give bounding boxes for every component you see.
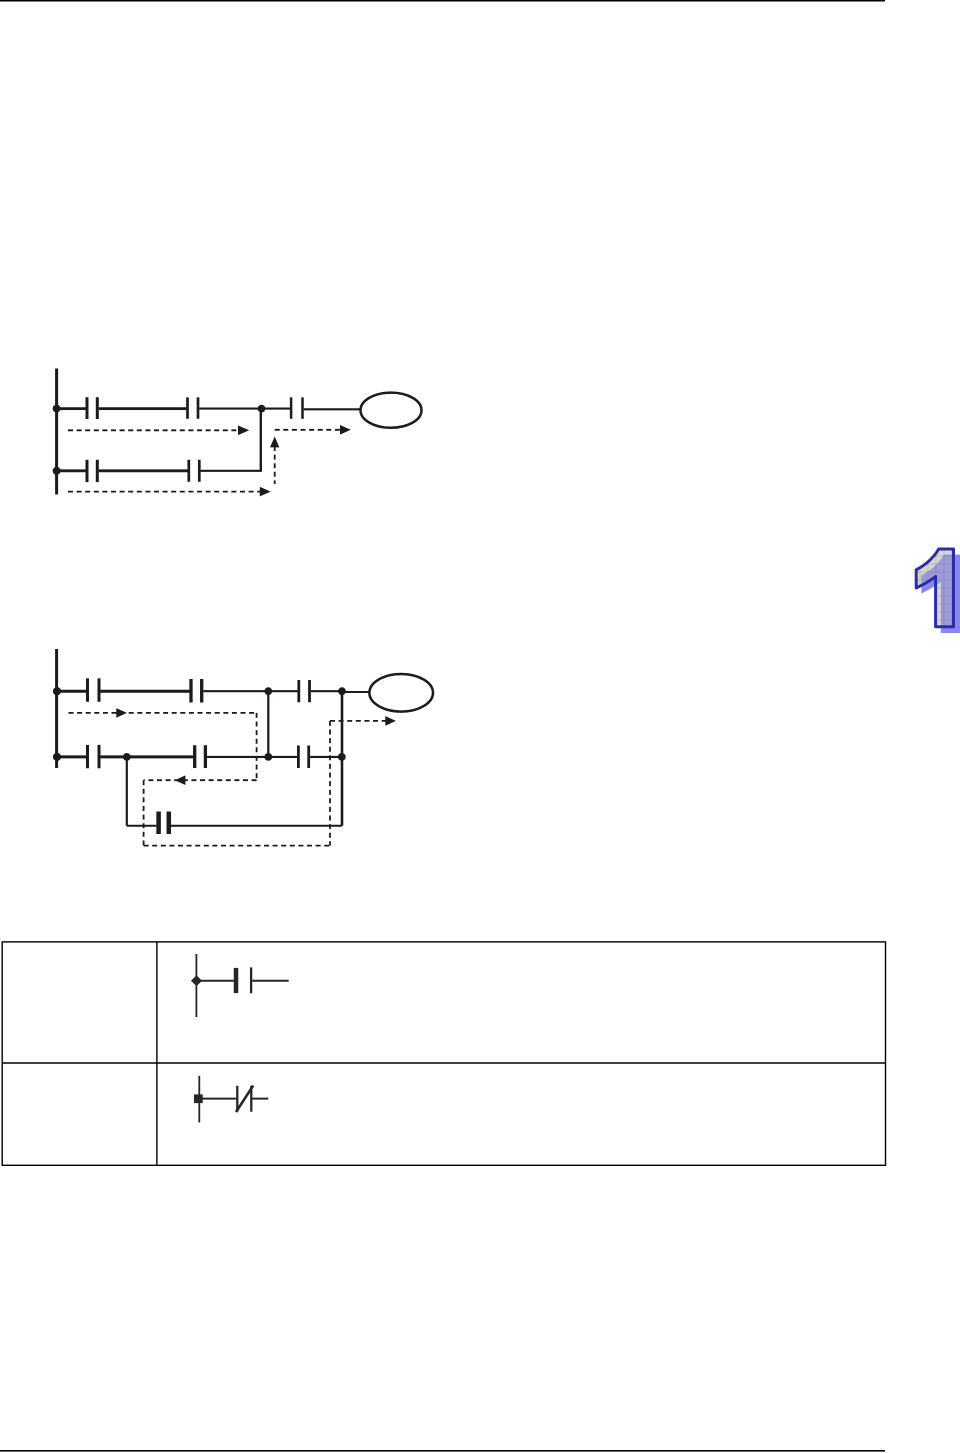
dashed vertical flow line <box>274 446 276 484</box>
wire d2 rung1 junction a to contact 3 <box>268 690 297 692</box>
contact 3 (d2 rung1) <box>299 680 310 702</box>
junction dot rung1 <box>258 405 266 413</box>
junction dot c <box>264 753 272 761</box>
vertical wire rung2 branch down to rung3 <box>126 757 128 826</box>
wire rung1 to junction <box>199 408 261 410</box>
contact 1 (d2 rung1) <box>88 678 100 701</box>
dashed flow arrow B line <box>275 429 342 431</box>
coil (output ellipse) <box>361 393 422 428</box>
junction dot b <box>338 687 346 695</box>
wire d2 rung2 mid <box>101 755 195 758</box>
contact 2 (rung2) <box>189 460 200 482</box>
contact 1 (rung1) <box>87 397 97 419</box>
wire junction to contact 3 <box>262 408 291 410</box>
wire d2 rung2 junction c to contact 3 <box>268 756 297 758</box>
contact (d2 rung3) <box>159 812 169 835</box>
NC symbol plate right <box>250 1086 252 1112</box>
NO symbol plate left (bold) <box>234 968 239 993</box>
NO symbol wire out <box>252 980 288 982</box>
wire d2 rung2 to junction c <box>207 756 268 758</box>
wire d2 rung1 to coil <box>342 691 369 693</box>
NC symbol wire in <box>199 1098 236 1100</box>
wire d2 rung1 to junction a <box>204 690 269 692</box>
contact 2 (d2 rung1) <box>191 679 202 703</box>
arrowhead d2 exit <box>385 716 396 726</box>
wire rung1 to coil <box>304 408 361 410</box>
wire d2 rung1 to junction b <box>311 690 342 692</box>
dashed flow d2 segment 6 (up) <box>329 721 331 846</box>
wire rung2 mid <box>99 469 188 472</box>
wire d2 rung2 to junction d <box>310 756 342 758</box>
table row divider <box>2 1062 885 1064</box>
junction dot rail rung2 <box>53 467 61 475</box>
NC symbol slash <box>236 1086 253 1112</box>
wire d2 rung1 mid <box>101 690 190 693</box>
left power rail <box>55 369 58 495</box>
chapter numeral inner shadow overlay <box>921 555 960 634</box>
arrowhead up <box>270 437 279 448</box>
vertical wire junction b-d down to rung3 <box>341 691 344 826</box>
junction dot rail d2 rung1 <box>53 687 61 695</box>
contact 1 (d2 rung2) <box>88 745 100 768</box>
contact 3 (rung1) <box>291 397 302 418</box>
chapter numeral shadow <box>921 555 960 634</box>
junction dot rail rung1 <box>53 405 61 413</box>
table column divider <box>156 942 158 1165</box>
dashed flow d2 segment 4 (down) <box>143 780 145 845</box>
wire d2 rung3 right <box>171 825 342 827</box>
contact 1 (rung2) <box>87 460 97 482</box>
junction dot d <box>338 753 346 761</box>
wire d2 rung1 left <box>57 690 86 693</box>
left power rail 2 <box>55 649 58 768</box>
dashed flow d2 segment 1 <box>69 712 257 714</box>
NC symbol wire out <box>252 1098 268 1100</box>
NO symbol rail <box>195 954 197 1017</box>
contact 2 (rung1) <box>188 397 199 418</box>
contact 2 (d2 rung2) <box>195 745 206 768</box>
junction dot a <box>264 687 272 695</box>
wire rung1 left <box>57 407 86 410</box>
vertical wire rung2 branch up to junction <box>260 409 262 471</box>
junction dot rail d2 rung2 <box>53 753 61 761</box>
dashed flow d2 segment 7 (exit right) <box>330 720 387 722</box>
junction dot d2 rung2 branch <box>123 753 131 761</box>
wire d2 rung3 left <box>127 825 157 827</box>
dashed flow arrow C line <box>68 491 262 493</box>
coil (output ellipse) d2 <box>369 674 433 712</box>
dashed flow d2 segment 5 (rightward bottom) <box>144 845 330 847</box>
arrowhead B <box>340 425 351 435</box>
dashed flow d2 segment 2 (down) <box>256 713 258 780</box>
NC symbol node dot <box>194 1094 203 1103</box>
arrowhead d2 left mid-line <box>175 775 186 785</box>
NO symbol wire in <box>196 980 233 982</box>
table row2 symbol: normally closed contact <box>199 1076 268 1123</box>
NO symbol plate right <box>250 967 252 993</box>
arrowhead d2 right mid-line <box>116 708 127 718</box>
arrowhead A <box>238 426 249 436</box>
NC symbol plate left <box>236 1086 238 1112</box>
wire rung2 to branch <box>201 470 262 472</box>
dashed flow d2 segment 3 (leftward) <box>144 779 257 781</box>
NO symbol node dot <box>191 975 202 986</box>
wire rung2 left <box>57 469 86 472</box>
wire rung1 mid <box>99 407 186 410</box>
dashed flow arrow A line <box>68 429 238 431</box>
bottom page rule <box>0 1450 885 1452</box>
table row1 symbol: normally open contact <box>196 954 288 1017</box>
wire d2 rung2 left <box>57 755 86 758</box>
chapter numeral outline <box>916 549 953 627</box>
arrowhead C <box>260 487 271 497</box>
NC symbol rail <box>198 1076 200 1123</box>
table outer border <box>2 942 885 1165</box>
top page rule <box>0 0 885 2</box>
chapter numeral grid texture <box>916 548 960 628</box>
vertical wire junction a-c <box>267 691 269 757</box>
chapter numeral body <box>916 549 953 627</box>
contact 3 (d2 rung2) <box>298 746 308 769</box>
